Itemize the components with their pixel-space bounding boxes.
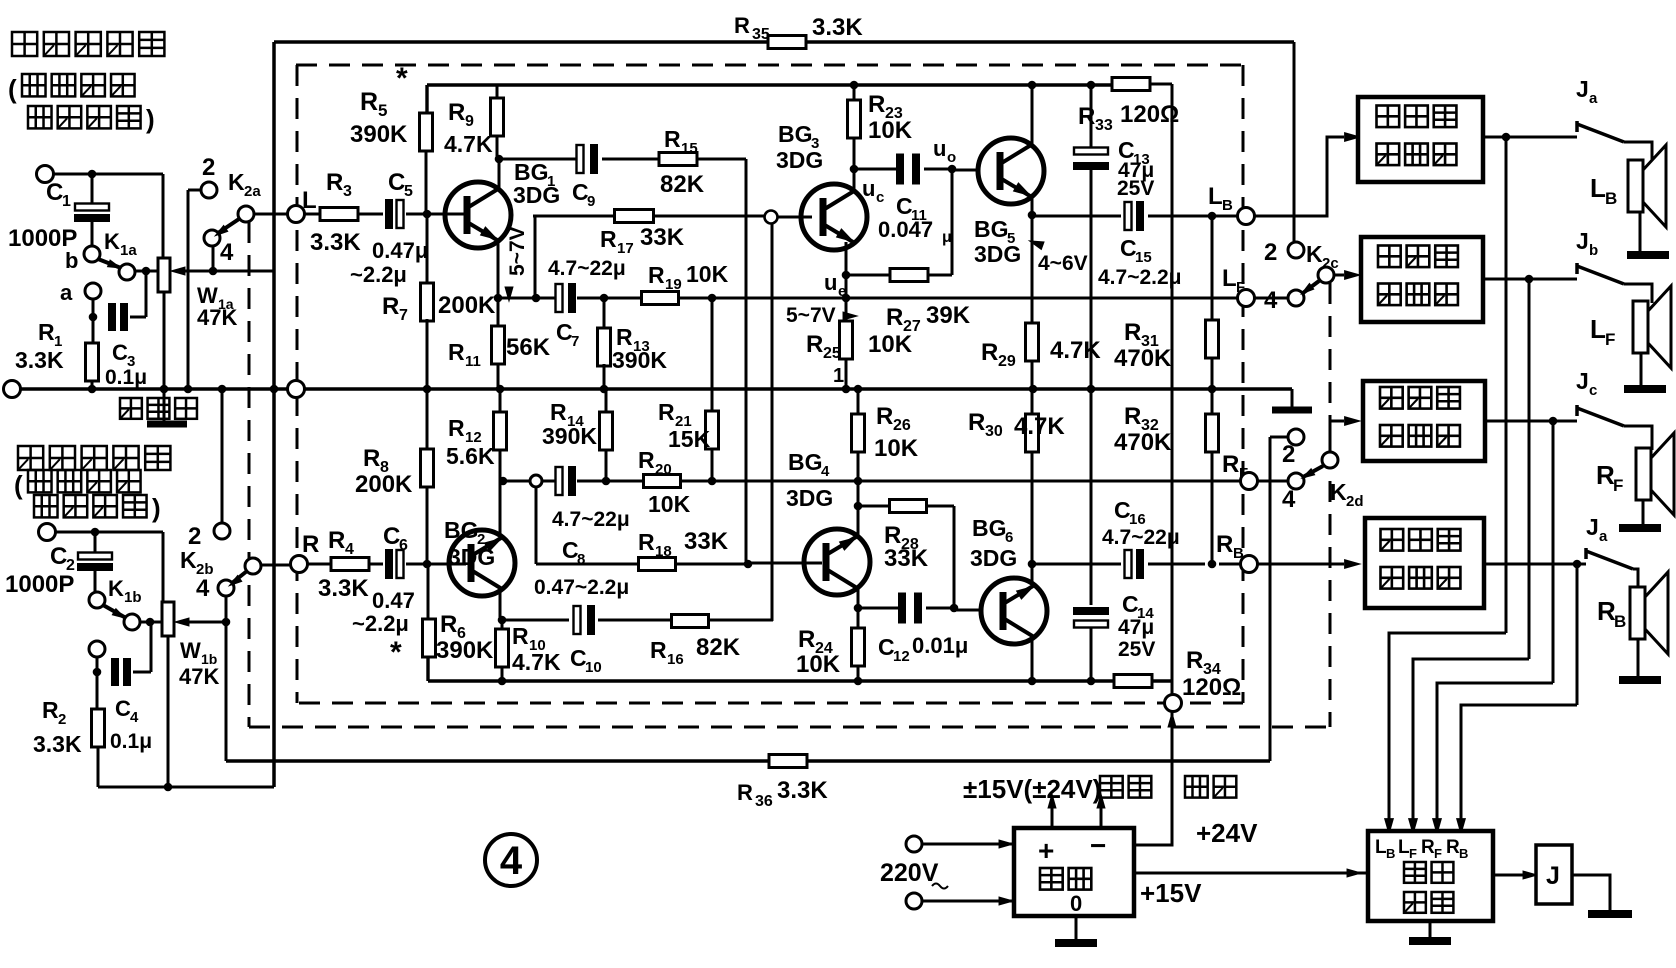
svg-text:2: 2 bbox=[188, 523, 201, 550]
wire BG1 collector row bbox=[499, 158, 746, 161]
terminal LF bbox=[1222, 265, 1255, 307]
svg-text:3.3K: 3.3K bbox=[318, 575, 369, 602]
terminal LB bbox=[1208, 183, 1255, 225]
svg-text:390K: 390K bbox=[542, 423, 597, 449]
switch K2d bbox=[1282, 429, 1364, 513]
wire inner top rail bbox=[427, 85, 1112, 115]
resistor R31 470K bbox=[1114, 216, 1219, 393]
wire K1b common to pot bbox=[140, 618, 163, 627]
capacitor C1 1000P bbox=[8, 174, 110, 252]
resistor R30 4.7K bbox=[968, 389, 1065, 568]
terminal left input bbox=[37, 166, 54, 183]
svg-text:2a: 2a bbox=[244, 183, 261, 200]
block right-front power amp bbox=[1363, 381, 1485, 461]
capacitor C11 0.047u bbox=[862, 136, 956, 246]
svg-text:47K: 47K bbox=[197, 305, 237, 330]
terminal C8 corner bbox=[530, 475, 542, 564]
arrow supply up 2 bbox=[1096, 792, 1105, 828]
wire K2a-4 to wiper row bbox=[209, 246, 274, 275]
svg-text:K: K bbox=[1330, 479, 1347, 505]
svg-text:0.47: 0.47 bbox=[372, 588, 415, 613]
wire protection to relay J bbox=[1493, 870, 1539, 879]
svg-text:W: W bbox=[180, 638, 201, 663]
svg-text:4: 4 bbox=[821, 463, 830, 480]
terminal 220V live bbox=[906, 836, 922, 852]
svg-text:B: B bbox=[1459, 846, 1468, 861]
svg-text:C: C bbox=[112, 340, 128, 365]
resistor R25 10K bbox=[806, 298, 913, 393]
wire inner bottom rail bbox=[428, 656, 1173, 681]
wire K2a-2 down to ground bus bbox=[184, 190, 201, 393]
block power supply bbox=[1014, 828, 1134, 916]
svg-text:R: R bbox=[650, 637, 667, 663]
svg-text:35: 35 bbox=[752, 26, 770, 43]
terminal ground board edge bbox=[288, 381, 305, 398]
resistor R12 5.6K bbox=[446, 389, 507, 485]
svg-text:4.7K: 4.7K bbox=[512, 649, 561, 675]
svg-text:*: * bbox=[390, 636, 402, 669]
resistor R36 bbox=[737, 755, 828, 811]
resistor R8 200K bbox=[355, 389, 434, 564]
svg-text:F: F bbox=[1409, 846, 1417, 861]
terminal RB bbox=[1216, 531, 1258, 573]
node pot W1a bus bbox=[160, 385, 169, 394]
svg-text:R: R bbox=[737, 780, 753, 805]
svg-text:R: R bbox=[658, 399, 675, 425]
resistor R32 470K bbox=[1114, 389, 1219, 568]
wire BG2 emitter bbox=[499, 481, 502, 537]
ground relay bbox=[1588, 910, 1632, 918]
node C1 top bbox=[88, 170, 97, 179]
svg-text:390K: 390K bbox=[612, 347, 667, 373]
svg-text:18: 18 bbox=[655, 543, 672, 560]
svg-text:R: R bbox=[550, 399, 567, 425]
svg-text:0.1μ: 0.1μ bbox=[110, 730, 152, 753]
svg-text:29: 29 bbox=[998, 353, 1016, 370]
svg-text:R: R bbox=[734, 13, 750, 38]
svg-text:5~7V: 5~7V bbox=[506, 226, 529, 276]
svg-text:39K: 39K bbox=[926, 302, 971, 329]
svg-text:F: F bbox=[1239, 465, 1248, 482]
wire BG2 collector row bbox=[502, 619, 773, 622]
svg-text:R: R bbox=[360, 88, 378, 116]
svg-text:47μ: 47μ bbox=[1118, 616, 1154, 639]
svg-text:u: u bbox=[824, 270, 837, 295]
node R1 bus bbox=[88, 385, 97, 394]
resistor R28 33K bbox=[858, 500, 954, 609]
wire Jc to RF speaker bbox=[1624, 426, 1652, 450]
capacitor C3 0.1u bbox=[89, 271, 147, 389]
wire K2b common to R terminal bbox=[261, 564, 291, 567]
wire RB to protection bbox=[1456, 564, 1577, 836]
resistor R5 390K bbox=[350, 62, 433, 214]
terminal L board edge bbox=[288, 187, 317, 223]
svg-text:6: 6 bbox=[1005, 529, 1013, 546]
text 5~7V BG3 bbox=[786, 304, 859, 327]
svg-text:): ) bbox=[146, 104, 155, 134]
wire right-front amp output bbox=[1485, 417, 1577, 426]
ground RF speaker bbox=[1619, 500, 1661, 528]
ground power supply bbox=[1055, 916, 1097, 943]
svg-text:a: a bbox=[1589, 90, 1598, 107]
svg-text:200K: 200K bbox=[355, 471, 413, 498]
text right line input title bbox=[14, 446, 170, 523]
resistor R19 10K bbox=[642, 261, 729, 305]
arrow supply up 1 bbox=[1047, 792, 1056, 828]
wire BG6 emitter bbox=[1031, 564, 1034, 586]
svg-text:390K: 390K bbox=[350, 121, 408, 148]
node R31 top bbox=[1208, 212, 1217, 221]
svg-text:82K: 82K bbox=[660, 171, 705, 198]
svg-text:4.7~22μ: 4.7~22μ bbox=[548, 257, 626, 280]
wire 220V live bbox=[922, 839, 1015, 848]
wire BG3 collector row bbox=[854, 165, 978, 174]
resistor R3 3.3K bbox=[310, 169, 361, 256]
svg-text:c: c bbox=[1589, 382, 1597, 399]
capacitor C2 1000P bbox=[5, 532, 113, 598]
resistor R33 120ohm bbox=[1078, 78, 1179, 135]
wire RF to K2d-4 bbox=[1258, 480, 1287, 483]
svg-text:3.3K: 3.3K bbox=[777, 777, 828, 804]
svg-text:e: e bbox=[838, 283, 846, 300]
svg-text:4: 4 bbox=[220, 239, 234, 266]
transistor BG2 3DG bbox=[444, 517, 515, 596]
svg-text:1: 1 bbox=[62, 193, 71, 210]
svg-text:C: C bbox=[115, 696, 131, 721]
node outer loop bus bbox=[270, 385, 279, 394]
svg-text:9: 9 bbox=[587, 193, 595, 210]
wire emitter LF row bbox=[498, 297, 1238, 300]
svg-text:R: R bbox=[664, 126, 681, 152]
svg-text:R: R bbox=[1186, 647, 1203, 674]
svg-text:R: R bbox=[328, 527, 345, 554]
capacitor C16 4.7-22u bbox=[1102, 497, 1180, 579]
svg-text:(: ( bbox=[14, 470, 23, 500]
ground LB speaker bbox=[1627, 212, 1669, 255]
wire BG2 collector bbox=[498, 589, 507, 624]
block left-front power amp bbox=[1361, 237, 1483, 322]
svg-text:+15V: +15V bbox=[1140, 878, 1202, 908]
resistor R29 4.7K bbox=[981, 215, 1101, 393]
wire BG6 collector bbox=[1028, 637, 1037, 685]
wire BG3 base bbox=[778, 216, 812, 219]
svg-text:5: 5 bbox=[378, 101, 387, 120]
svg-text:11: 11 bbox=[465, 353, 481, 370]
svg-text:33K: 33K bbox=[640, 224, 685, 251]
svg-text:2: 2 bbox=[58, 711, 66, 728]
svg-text:B: B bbox=[1605, 189, 1617, 208]
wire BG3 emitter to R27 bbox=[846, 169, 952, 275]
svg-text:L: L bbox=[1590, 314, 1606, 344]
terminal BG3 base node bbox=[765, 211, 778, 224]
capacitor C7 4.7-22u bbox=[548, 257, 626, 350]
svg-text:4: 4 bbox=[196, 575, 210, 602]
dashed switch linkage right bbox=[1329, 283, 1332, 727]
transistor BG6 3DG bbox=[970, 515, 1047, 644]
svg-text:0.01μ: 0.01μ bbox=[912, 633, 968, 658]
svg-text:R: R bbox=[1124, 319, 1141, 346]
dashed circuit-board boundary top bbox=[296, 64, 1243, 67]
svg-text:R: R bbox=[1446, 837, 1460, 858]
wire left input top bbox=[54, 174, 163, 258]
svg-text:4: 4 bbox=[1264, 287, 1278, 314]
wire left-rear amp output bbox=[1483, 133, 1577, 142]
switch Ja bbox=[1576, 76, 1624, 142]
wire outer loop left edge bbox=[272, 42, 276, 787]
svg-text:±15V(±24V): ±15V(±24V) bbox=[963, 774, 1101, 804]
svg-text:3.3K: 3.3K bbox=[15, 347, 64, 373]
svg-text:R: R bbox=[382, 293, 399, 320]
svg-text:33K: 33K bbox=[884, 545, 929, 572]
svg-text:3.3K: 3.3K bbox=[812, 14, 863, 41]
wire BG4 collector bbox=[854, 588, 863, 612]
svg-text:K: K bbox=[180, 547, 197, 573]
node BG1 base bbox=[423, 210, 432, 219]
svg-text:2d: 2d bbox=[1346, 493, 1364, 510]
svg-text:3DG: 3DG bbox=[786, 485, 833, 511]
wire R18 row bbox=[536, 560, 822, 569]
svg-text:25: 25 bbox=[823, 345, 841, 362]
svg-text:J: J bbox=[1576, 368, 1589, 394]
wire BG5 collector bbox=[1028, 81, 1037, 146]
svg-text:R: R bbox=[981, 339, 998, 366]
svg-text:10K: 10K bbox=[686, 261, 729, 287]
switch K1a bbox=[65, 229, 137, 280]
wire BG5 emitter bbox=[1028, 196, 1037, 219]
resistor R7 200K bbox=[382, 214, 496, 393]
wire Jb to LF speaker bbox=[1624, 284, 1652, 303]
svg-text:K: K bbox=[108, 576, 124, 601]
svg-text:B: B bbox=[1614, 612, 1626, 631]
capacitor C8 4.7-22u bbox=[552, 466, 630, 568]
svg-text:0.047: 0.047 bbox=[878, 217, 933, 242]
dashed circuit-board boundary bottom bbox=[299, 702, 1243, 705]
svg-text:BG: BG bbox=[788, 449, 823, 475]
svg-text:R: R bbox=[363, 445, 380, 472]
svg-text:R: R bbox=[326, 169, 343, 196]
svg-text:1a: 1a bbox=[120, 242, 137, 259]
svg-text:B: B bbox=[1386, 846, 1395, 861]
svg-text:c: c bbox=[876, 189, 884, 206]
wire BG4 emitter bbox=[854, 502, 863, 537]
resistor R1 3.3K bbox=[15, 299, 99, 389]
wire +24V feed bbox=[1134, 711, 1258, 848]
resistor R20 10K bbox=[638, 447, 691, 517]
svg-text:R: R bbox=[448, 415, 465, 441]
block electronic protection bbox=[1368, 831, 1493, 921]
svg-text:L: L bbox=[302, 187, 317, 214]
wire L row bbox=[305, 213, 466, 216]
wire BG3 emitter bbox=[842, 242, 851, 302]
wire outer loop right edge to K2c-2 bbox=[1293, 42, 1296, 241]
svg-text:R: R bbox=[648, 262, 665, 288]
wire K2d common to right-front block bbox=[1330, 416, 1362, 452]
svg-text:4.7~2.2μ: 4.7~2.2μ bbox=[1098, 266, 1182, 289]
resistor R26 10K bbox=[852, 385, 919, 506]
terminal +24V board edge bbox=[1165, 695, 1182, 712]
svg-text:12: 12 bbox=[893, 648, 910, 665]
svg-text:R: R bbox=[868, 91, 885, 118]
terminal a left bbox=[60, 280, 101, 305]
switch K2b bbox=[180, 523, 261, 602]
svg-text:16: 16 bbox=[667, 651, 684, 668]
text plusminus supply bbox=[963, 774, 1236, 804]
svg-text:4: 4 bbox=[130, 709, 139, 726]
figure number 4 circled bbox=[485, 834, 537, 886]
switch Jc bbox=[1576, 368, 1624, 426]
svg-text:R: R bbox=[38, 319, 55, 345]
svg-text:K: K bbox=[228, 169, 245, 195]
svg-text:~2.2μ: ~2.2μ bbox=[352, 611, 409, 636]
terminal R board edge bbox=[291, 531, 320, 573]
capacitor C5 0.47-2.2u bbox=[350, 169, 428, 287]
svg-text:B: B bbox=[1222, 197, 1233, 214]
resistor R10 4.7K bbox=[496, 620, 561, 685]
svg-text:R: R bbox=[1222, 451, 1239, 478]
wire LF to protection bbox=[1408, 279, 1529, 836]
svg-text:4.7K: 4.7K bbox=[444, 131, 493, 157]
svg-text:3DG: 3DG bbox=[970, 545, 1017, 571]
resistor R14 390K bbox=[542, 389, 613, 485]
svg-text:R: R bbox=[1216, 531, 1233, 558]
wire input-ground stub bottom left bbox=[98, 786, 274, 789]
ground bus right end bbox=[1272, 389, 1312, 410]
svg-text:5~7V: 5~7V bbox=[786, 304, 836, 327]
wire K2b-2 up to ground bus bbox=[218, 385, 227, 523]
wire Jd to RB speaker bbox=[1633, 569, 1638, 587]
resistor R27 39K bbox=[886, 269, 971, 336]
svg-text:470K: 470K bbox=[1114, 429, 1172, 456]
resistor R23 10K bbox=[848, 81, 913, 174]
wire +24V column bbox=[1171, 84, 1174, 695]
svg-text:20: 20 bbox=[655, 461, 672, 478]
svg-text:4: 4 bbox=[1282, 486, 1296, 513]
wire +15V feed bbox=[1134, 868, 1368, 908]
svg-text:120Ω: 120Ω bbox=[1120, 101, 1179, 128]
block right-rear power amp bbox=[1365, 518, 1484, 608]
svg-text:25V: 25V bbox=[1117, 177, 1154, 200]
svg-text:5.6K: 5.6K bbox=[446, 443, 495, 469]
speaker LF bbox=[1590, 286, 1671, 368]
wire K2a common to L terminal bbox=[254, 213, 288, 216]
wire BG1 emitter bbox=[494, 241, 503, 302]
svg-text:4.7~22μ: 4.7~22μ bbox=[1102, 526, 1180, 549]
svg-text:120Ω: 120Ω bbox=[1182, 674, 1241, 701]
svg-text:F: F bbox=[1236, 279, 1245, 296]
svg-text:10K: 10K bbox=[648, 491, 691, 517]
dashed circuit-board boundary left bbox=[296, 65, 299, 703]
svg-text:10: 10 bbox=[585, 659, 602, 676]
svg-text:C: C bbox=[46, 179, 63, 206]
node C7 corner bbox=[532, 294, 541, 303]
svg-text:R: R bbox=[968, 409, 985, 436]
svg-text:a: a bbox=[1599, 528, 1608, 545]
relay J box bbox=[1536, 845, 1572, 904]
wire RB row bbox=[1032, 563, 1344, 566]
svg-text:(: ( bbox=[8, 74, 17, 104]
svg-text:u: u bbox=[933, 136, 946, 161]
arrow into right-rear block bbox=[1344, 559, 1362, 569]
svg-text:15: 15 bbox=[681, 140, 698, 157]
svg-text:B: B bbox=[1233, 545, 1244, 562]
svg-text:33: 33 bbox=[1095, 117, 1113, 134]
terminal right input bbox=[39, 524, 56, 541]
svg-text:1b: 1b bbox=[124, 589, 142, 606]
wire K2b-4 to wiper row bbox=[222, 596, 231, 761]
svg-text:*: * bbox=[396, 62, 408, 95]
arrow into left-rear block bbox=[1344, 132, 1362, 142]
svg-text:36: 36 bbox=[755, 793, 773, 810]
svg-text:J: J bbox=[1576, 228, 1589, 254]
ground LF speaker bbox=[1624, 353, 1666, 389]
svg-text:47K: 47K bbox=[179, 664, 219, 689]
svg-text:L: L bbox=[1222, 265, 1237, 292]
capacitor C13 47u 25V bbox=[1073, 81, 1154, 394]
wire BG1 collector bbox=[495, 155, 504, 190]
text ue label bbox=[824, 270, 846, 300]
resistor R24 10K bbox=[796, 608, 865, 685]
wire emitter RF row bbox=[503, 480, 1241, 483]
resistor R11 56K bbox=[448, 298, 551, 393]
svg-text:2: 2 bbox=[202, 154, 215, 181]
svg-text:b: b bbox=[1589, 242, 1598, 259]
node R21 top bbox=[708, 294, 717, 303]
svg-text:2: 2 bbox=[1264, 239, 1277, 266]
wire R row bbox=[308, 563, 466, 566]
svg-text:R: R bbox=[798, 626, 815, 653]
terminal RF bbox=[1222, 451, 1258, 490]
resistor R21 15K bbox=[658, 298, 719, 481]
svg-text:J: J bbox=[1576, 76, 1589, 102]
svg-text:33K: 33K bbox=[684, 528, 729, 555]
wire RF to protection bbox=[1432, 421, 1553, 836]
svg-text:200K: 200K bbox=[438, 292, 496, 319]
transistor BG4 3DG bbox=[786, 449, 870, 595]
svg-text:R: R bbox=[876, 403, 893, 430]
svg-text:0.47~2.2μ: 0.47~2.2μ bbox=[534, 576, 629, 599]
svg-text:3.3K: 3.3K bbox=[33, 731, 82, 757]
terminal 220V neutral bbox=[906, 893, 922, 909]
svg-text:a: a bbox=[60, 280, 73, 305]
resistor R18 33K bbox=[638, 528, 729, 571]
svg-text:0: 0 bbox=[1070, 891, 1082, 916]
svg-text:R: R bbox=[448, 99, 465, 126]
svg-text:R: R bbox=[42, 697, 59, 723]
svg-text:10K: 10K bbox=[868, 331, 913, 358]
switch Jd bbox=[1586, 514, 1633, 569]
svg-text:4.7~22μ: 4.7~22μ bbox=[552, 508, 630, 531]
wire R15 feedback column bbox=[745, 159, 748, 564]
svg-text:3DG: 3DG bbox=[513, 182, 560, 208]
capacitor C6 0.47-2.2u bbox=[352, 523, 415, 669]
text 5~7V vertical BG1 bbox=[504, 226, 529, 303]
svg-text:BG: BG bbox=[444, 517, 479, 543]
svg-text:30: 30 bbox=[985, 423, 1003, 440]
terminal ground bus left bbox=[4, 381, 21, 398]
svg-text:1000P: 1000P bbox=[5, 571, 74, 598]
potentiometer W1b 47K bbox=[162, 602, 226, 791]
wire LF to K2c-4 bbox=[1255, 297, 1287, 300]
svg-text:J: J bbox=[1546, 862, 1560, 890]
svg-text:μ: μ bbox=[942, 229, 952, 246]
svg-text:R: R bbox=[806, 331, 823, 358]
capacitor C12 0.01u bbox=[858, 593, 981, 666]
wire relay to ground bbox=[1572, 875, 1610, 911]
text left line input title bbox=[8, 32, 164, 134]
svg-text:K: K bbox=[1306, 241, 1323, 267]
svg-text:10K: 10K bbox=[874, 435, 919, 462]
wire right-rear amp output bbox=[1484, 560, 1586, 569]
